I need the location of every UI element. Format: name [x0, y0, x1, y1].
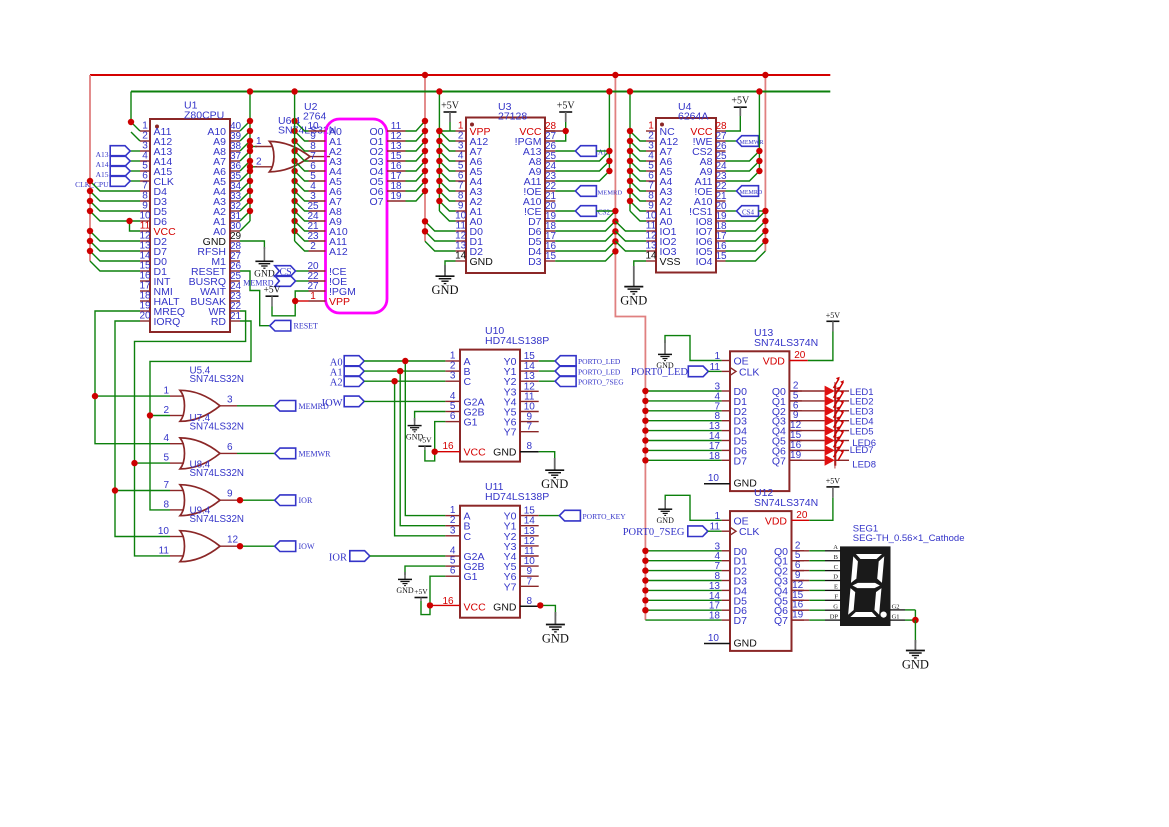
- U3 pin 8 A2: [456, 200, 467, 202]
- svg-text:VCC: VCC: [464, 601, 487, 613]
- port flag MEMRD: [275, 401, 296, 412]
- junction: [422, 188, 428, 194]
- U4 pin 4 A6: [646, 160, 656, 162]
- or-gate U6.4 SN74LS32N: [250, 146, 257, 148]
- U12 pin 3 D0: [722, 550, 730, 552]
- led LED5: [825, 425, 835, 436]
- wire SEG1 common to ground: [905, 609, 915, 611]
- U2 pin 5 A5: [309, 180, 326, 182]
- junction: [642, 398, 648, 404]
- U2 pin 21 A10: [309, 230, 326, 232]
- svg-text:1: 1: [310, 291, 316, 302]
- U1 pin 3 A13: [140, 150, 150, 152]
- wire U4 A6 tap: [630, 151, 646, 161]
- svg-text:7: 7: [527, 576, 533, 587]
- led LED3 anode wire: [789, 410, 824, 412]
- wire U12 Q4 to SEG E: [792, 589, 810, 591]
- U1 pin 6 CLK: [140, 180, 150, 182]
- U12 pin 16 Q6: [792, 609, 805, 611]
- wire U3 A2 tap: [439, 191, 455, 201]
- svg-text:8: 8: [527, 596, 533, 607]
- seg decimal point: [881, 612, 887, 618]
- svg-text:D3: D3: [528, 256, 542, 268]
- svg-text:GND: GND: [657, 516, 675, 525]
- junction: [642, 567, 648, 573]
- U1 pin 13 D7: [140, 250, 150, 252]
- svg-text:12: 12: [227, 535, 239, 546]
- junction: [627, 198, 633, 204]
- wire U1 A6 to address bus: [240, 161, 250, 171]
- svg-text:4: 4: [163, 433, 169, 444]
- svg-text:PORTO_LED: PORTO_LED: [578, 367, 621, 376]
- U10 pin 9 Y6: [520, 421, 539, 423]
- junction: [627, 128, 633, 134]
- wire U1 A11 A12 to top bus: [131, 92, 140, 132]
- U2 pin 27 !PGM: [309, 290, 326, 292]
- U12 pin 12 Q4: [792, 589, 805, 591]
- wire WR branch gate2: [135, 462, 171, 464]
- junction: [642, 418, 648, 424]
- port flag PORT0_7SEG to U12 CLK: [688, 526, 708, 537]
- U13 pin 5 Q1: [789, 400, 802, 402]
- wire U4 address bus vertical: [629, 92, 631, 212]
- U4 pin 1 NC: [646, 130, 656, 132]
- U1 pin 24 WAIT: [230, 290, 240, 292]
- U1 pin 9 D5: [140, 210, 150, 212]
- led LED7: [825, 445, 835, 456]
- U1 pin 18 HALT: [140, 300, 150, 302]
- svg-text:O7: O7: [369, 196, 383, 208]
- ic U3 27128 body: [466, 118, 545, 274]
- U1 pin 31 A1: [230, 220, 240, 222]
- junction: [627, 148, 633, 154]
- svg-text:14: 14: [645, 251, 657, 262]
- port flag A13 (U3): [555, 150, 575, 152]
- junction: [606, 158, 612, 164]
- U4 pin 23 A11: [716, 180, 726, 182]
- svg-text:Y7: Y7: [504, 581, 517, 593]
- junction: [87, 208, 93, 214]
- U1 pin 8 D3: [140, 200, 150, 202]
- U11 pin 13 Y2: [520, 535, 539, 537]
- port flag CLK_CPU: [130, 180, 140, 182]
- U11 pin 1 A: [445, 515, 460, 517]
- svg-text:G1: G1: [464, 571, 478, 583]
- junction: [87, 228, 93, 234]
- wire U1 D2 to data bus: [90, 231, 140, 241]
- svg-text:PORT0_7SEG: PORT0_7SEG: [623, 527, 685, 538]
- ground U10 GND pin8: [539, 452, 555, 462]
- wire MREQ branch gate1: [95, 395, 170, 397]
- led LED4 anode wire: [789, 420, 824, 422]
- U3 pin 3 A7: [456, 150, 467, 152]
- wire U1 D7 to data bus: [90, 241, 140, 251]
- U3 pin 19 D7: [545, 220, 555, 222]
- led LED1 anode wire: [789, 390, 824, 392]
- svg-text:IO4: IO4: [696, 256, 713, 268]
- port flag MEMWR: [275, 448, 296, 459]
- U3 pin 9 A1: [456, 210, 467, 212]
- svg-text:VDD: VDD: [765, 515, 788, 527]
- junction: [247, 118, 253, 124]
- port flag MEMRD to U2 !OE: [296, 280, 309, 282]
- led cathode rail: [834, 382, 836, 469]
- wire U3 !PGM to +5V: [555, 131, 566, 141]
- svg-text:3: 3: [450, 371, 456, 382]
- junction: [292, 298, 298, 304]
- svg-text:RD: RD: [211, 316, 227, 328]
- wire U4 A1 tap: [630, 201, 646, 211]
- wire U2 A12 to address bus: [295, 241, 309, 251]
- U1 pin 37 A7: [230, 160, 240, 162]
- wire U2 A10 to address bus: [295, 221, 309, 231]
- junction: [422, 118, 428, 124]
- svg-text:C: C: [464, 376, 472, 388]
- svg-text:CLK: CLK: [739, 366, 759, 378]
- wire U1 D5 to data bus: [90, 201, 140, 211]
- junction: [537, 602, 543, 608]
- junction: [642, 427, 648, 433]
- port flag PORTO_LED (U10 Y1): [539, 370, 555, 372]
- U10 pin 5 G2B: [445, 411, 460, 413]
- junction: [642, 457, 648, 463]
- U10 pin 14 Y1: [520, 370, 539, 372]
- U3 pin 16 D4: [545, 250, 555, 252]
- junction: [422, 178, 428, 184]
- U4 pin 20 !CS1: [716, 210, 726, 212]
- port flag CS4 (U4 !CS1): [726, 210, 737, 212]
- U1 pin 1 A11: [140, 130, 150, 132]
- svg-text:PORTO_7SEG: PORTO_7SEG: [578, 377, 624, 386]
- wire U2 O3 to data bus: [406, 151, 426, 161]
- wire U1 D6 to data bus: [90, 211, 140, 221]
- ground U11 GND pin8: [539, 605, 556, 616]
- svg-text:PORTO_LED: PORTO_LED: [578, 357, 621, 366]
- svg-text:VCC: VCC: [464, 447, 487, 459]
- svg-text:19: 19: [790, 450, 802, 461]
- svg-text:D: D: [833, 574, 838, 581]
- U12 pin 13 D4: [722, 589, 730, 591]
- U13 pin 16 Q6: [789, 449, 802, 451]
- U2 pin 11 O0: [387, 130, 406, 132]
- wire U4 A5 tap: [630, 161, 646, 171]
- U11 pin 10 Y5: [520, 565, 539, 567]
- ground U4 VSS: [634, 261, 646, 272]
- svg-text:3: 3: [450, 525, 456, 536]
- or-gate U5.4 SN74LS32N: [170, 395, 184, 397]
- wire U3 D7-D3 to data bus: [555, 211, 615, 221]
- U4 pin 7 A3: [646, 190, 656, 192]
- U10 pin 13 Y2: [520, 380, 539, 382]
- led LED3: [825, 405, 835, 416]
- U1 pin 10 D6: [140, 220, 150, 222]
- U13 pin 13 D4: [722, 430, 730, 432]
- svg-text:11: 11: [159, 545, 170, 556]
- wire U2 A8 to address bus: [295, 201, 309, 211]
- U11 pin 8 GND: [520, 605, 539, 607]
- wire U2 A6 to address bus: [295, 181, 309, 191]
- U3 pin 7 A3: [456, 190, 467, 192]
- U1 pin 11 VCC: [140, 230, 150, 232]
- U12 pin 15 Q5: [792, 599, 805, 601]
- port flag A2: [344, 376, 364, 387]
- U11 pin 15 Y0: [520, 515, 539, 517]
- U3 pin 12 D1: [456, 240, 467, 242]
- svg-text:HD74LS138P: HD74LS138P: [485, 335, 549, 347]
- wire U1 A8 to address bus: [240, 141, 250, 151]
- U13 pin 12 Q4: [789, 430, 802, 432]
- svg-text:B: B: [834, 554, 839, 561]
- U2 pin 3 A7: [309, 200, 326, 202]
- U2 pin 16 O4: [387, 170, 406, 172]
- U1 pin 25 BUSRQ: [230, 280, 240, 282]
- svg-text:+5V: +5V: [414, 587, 428, 596]
- svg-text:IORQ: IORQ: [154, 316, 181, 328]
- junction: [436, 198, 442, 204]
- port flag A0: [344, 356, 364, 367]
- svg-text:A14: A14: [96, 160, 109, 169]
- svg-text:PORT0_LED: PORT0_LED: [631, 367, 689, 378]
- U1 pin 19 MREQ: [140, 310, 150, 312]
- wire U2 O7 to data bus: [406, 191, 426, 201]
- U4 pin 3 A7: [646, 150, 656, 152]
- wire WR to OR gates: [135, 311, 246, 556]
- wire U4 A3 tap: [630, 181, 646, 191]
- U4 pin 25 A8: [716, 160, 726, 162]
- junction: [627, 168, 633, 174]
- U11 pin 11 Y4: [520, 555, 539, 557]
- junction: [291, 198, 297, 204]
- svg-text:7: 7: [163, 480, 169, 491]
- wire U1 A5 to address bus: [240, 171, 250, 181]
- led LED8 anode wire: [789, 459, 824, 461]
- port flag CS2 (U3 !CE): [555, 210, 575, 212]
- U4 pin 9 A1: [646, 210, 656, 212]
- U1 pin 16 INT: [140, 280, 150, 282]
- U12 pin 5 Q1: [792, 560, 805, 562]
- U2 pin 25 A8: [309, 210, 326, 212]
- U12 pin 6 Q2: [792, 570, 805, 572]
- svg-text:5: 5: [163, 453, 169, 464]
- U12 pin 11 CLK: [722, 530, 730, 532]
- svg-text:+5V: +5V: [418, 436, 432, 445]
- U13 pin 4 D1: [722, 400, 730, 402]
- led LED2: [825, 396, 835, 407]
- U10 pin 8 GND: [520, 451, 539, 453]
- svg-text:1: 1: [256, 136, 262, 147]
- svg-text:CS2: CS2: [598, 209, 611, 217]
- junction: [87, 248, 93, 254]
- U11 pin 6 G1: [445, 575, 460, 577]
- junction: [642, 597, 648, 603]
- ic U2 2764 body: [326, 119, 388, 313]
- wire RD to OR gates: [150, 321, 251, 510]
- port flag CS: [296, 270, 309, 272]
- wire U1 A1 to address bus: [240, 211, 250, 221]
- ic U12 SN74LS374N body: [730, 511, 792, 651]
- wire U13 OE to ground: [665, 336, 722, 361]
- wire U12 Q2 to SEG C: [792, 570, 810, 572]
- wire gate output MEMWR: [237, 452, 275, 454]
- or-gate U7.4 SN74LS32N: [170, 443, 184, 445]
- U12 pin 18 D7: [722, 619, 730, 621]
- svg-text:G: G: [833, 603, 838, 610]
- junction: [612, 238, 618, 244]
- junction: [612, 228, 618, 234]
- junction: [912, 617, 919, 624]
- svg-text:9: 9: [227, 489, 233, 500]
- wire U2 O1 to data bus: [406, 131, 426, 141]
- wire U11 G2B to ground: [405, 566, 445, 575]
- junction: [291, 148, 297, 154]
- U13 pin 10 GND: [704, 483, 730, 485]
- led LED7 anode wire: [789, 449, 824, 451]
- svg-text:+5V: +5V: [264, 286, 281, 296]
- svg-text:PORTO_KEY: PORTO_KEY: [583, 512, 627, 521]
- svg-text:CLK: CLK: [739, 526, 759, 538]
- junction: [422, 128, 428, 134]
- U4 pin 2 A12: [646, 140, 656, 142]
- svg-text:GND: GND: [542, 631, 569, 645]
- junction: [291, 158, 297, 164]
- svg-text:D7: D7: [734, 615, 748, 627]
- U1 pin 30 A0: [230, 230, 240, 232]
- U3 pin 26 A13: [545, 150, 555, 152]
- U11 pin 7 Y7: [520, 585, 539, 587]
- svg-text:14: 14: [455, 251, 467, 262]
- wire U4 A8 A9 A11 taps: [726, 151, 760, 161]
- U3 pin 21 A10: [545, 200, 555, 202]
- junction: [237, 543, 243, 549]
- led LED2 anode wire: [789, 400, 824, 402]
- wire U3 A5 tap: [439, 161, 455, 171]
- U1 pin 32 A2: [230, 210, 240, 212]
- U3 pin 10 A0: [456, 220, 467, 222]
- wire U2 A4 to address bus: [295, 161, 309, 171]
- wire U2 A0 to address bus: [295, 121, 309, 131]
- svg-text:2: 2: [256, 156, 262, 167]
- wire U1 D3 to data bus: [90, 191, 140, 201]
- svg-text:15: 15: [715, 251, 727, 262]
- U4 pin 15 IO4: [716, 260, 726, 262]
- U1 pin 23 BUSAK: [230, 300, 240, 302]
- U2 pin 17 O5: [387, 180, 406, 182]
- svg-text:GND: GND: [470, 256, 494, 268]
- U1 pin 38 A8: [230, 150, 240, 152]
- wire U2 address bus vertical: [294, 92, 296, 242]
- U2 pin 18 O6: [387, 190, 406, 192]
- svg-text:A2: A2: [330, 378, 343, 389]
- U11 pin 9 Y6: [520, 575, 539, 577]
- ic U1 Z80CPU body: [150, 119, 230, 332]
- junction: [642, 607, 648, 613]
- svg-text:A13: A13: [96, 150, 109, 159]
- junction: [642, 408, 648, 414]
- wire IORQ to OR gates: [115, 321, 170, 537]
- svg-text:2: 2: [163, 405, 169, 416]
- ic U13 SN74LS374N body: [730, 351, 789, 491]
- wire gate output IOR: [237, 499, 275, 501]
- port flag PORT0_LED to U13 CLK: [688, 366, 708, 377]
- U1 pin 21 RD: [230, 320, 240, 322]
- svg-text:C: C: [834, 564, 838, 571]
- junction: [291, 208, 297, 214]
- U10 pin 6 G1: [445, 421, 460, 423]
- svg-text:MEMWR: MEMWR: [299, 449, 332, 458]
- svg-text:GND: GND: [396, 586, 414, 595]
- wire U12 Q0 to SEG A: [792, 550, 810, 552]
- wire U4 IO8-IO4 to data bus: [726, 211, 766, 221]
- svg-text:SN74LS32N: SN74LS32N: [190, 468, 244, 479]
- wire U1 A7 to address bus: [240, 151, 250, 161]
- U4 pin 16 IO5: [716, 250, 726, 252]
- port flag A15: [130, 170, 140, 172]
- wire VCC/data top bus horizontal: [90, 74, 830, 76]
- U1 pin 35 A5: [230, 180, 240, 182]
- wire U3 A1 tap: [439, 201, 455, 211]
- svg-text:IOW: IOW: [299, 542, 315, 551]
- U12 pin 17 D6: [722, 609, 730, 611]
- ground U3 GND pin14: [445, 261, 456, 272]
- svg-text:MEMRD: MEMRD: [740, 190, 763, 196]
- junction: [422, 168, 428, 174]
- svg-text:16: 16: [442, 441, 454, 452]
- svg-text:SN74LS32N: SN74LS32N: [190, 374, 244, 385]
- svg-text:6: 6: [450, 566, 456, 577]
- wire data bus vertical left of U1: [89, 75, 91, 261]
- junction: [642, 388, 648, 394]
- U1 pin 15 D1: [140, 270, 150, 272]
- U1 pin 7 D4: [140, 190, 150, 192]
- junction: [291, 118, 297, 124]
- svg-text:VSS: VSS: [660, 256, 681, 268]
- svg-text:+5V: +5V: [441, 101, 460, 112]
- U10 pin 1 A: [445, 360, 460, 362]
- U1 pin 28 RFSH: [230, 250, 240, 252]
- svg-text:19: 19: [792, 610, 804, 621]
- svg-text:G1: G1: [892, 614, 900, 621]
- junction: [756, 168, 762, 174]
- wire U1 D1 to data bus: [90, 261, 140, 271]
- U3 pin 25 A8: [545, 160, 555, 162]
- svg-text:IOW: IOW: [322, 398, 343, 409]
- junction: [436, 188, 442, 194]
- wire U4 right address vertical: [758, 92, 760, 172]
- U1 pin 22 WR: [230, 310, 240, 312]
- U10 pin 7 Y7: [520, 431, 539, 433]
- U3 pin 18 D6: [545, 230, 555, 232]
- svg-text:20: 20: [794, 350, 806, 361]
- svg-text:GND: GND: [734, 638, 758, 650]
- U1 pin 4 A14: [140, 160, 150, 162]
- junction: [762, 238, 768, 244]
- U4 pin 11 IO1: [646, 230, 656, 232]
- junction: [247, 128, 253, 134]
- svg-text:3: 3: [227, 394, 233, 405]
- junction: [291, 188, 297, 194]
- U1 pin 34 A4: [230, 190, 240, 192]
- wire U3 A3 tap: [439, 181, 455, 191]
- wire U2 A7 to address bus: [295, 191, 309, 201]
- U12 pin 8 D3: [722, 580, 730, 582]
- wire U1 A10 to address bus: [240, 121, 250, 131]
- junction: [756, 148, 762, 154]
- U10 pin 2 B: [445, 370, 460, 372]
- junction: [87, 238, 93, 244]
- U4 pin 12 IO2: [646, 240, 656, 242]
- U3 pin 11 D0: [456, 230, 467, 232]
- svg-text:20: 20: [139, 311, 151, 322]
